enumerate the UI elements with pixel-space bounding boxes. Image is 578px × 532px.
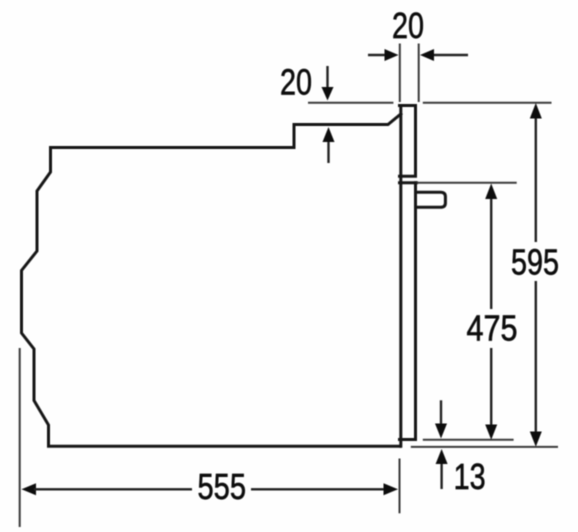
555 dimension line with arrows <box>22 483 399 495</box>
13 upper down arrow <box>435 400 447 438</box>
20-gap down arrow <box>322 66 334 101</box>
front frame lower section right edge and bottom <box>400 183 416 440</box>
door handle <box>416 192 446 207</box>
555 right extension line <box>399 459 401 514</box>
svg-text:20: 20 <box>392 5 424 46</box>
frame depth extension lines <box>400 44 419 103</box>
595 dimension line with arrows <box>530 103 542 447</box>
475 top extension line <box>417 182 517 184</box>
front frame lower section top edge <box>400 181 417 184</box>
svg-text:20: 20 <box>280 62 312 103</box>
top extension line (level of frame top) <box>308 102 552 104</box>
svg-text:555: 555 <box>198 466 247 507</box>
20-gap up arrow <box>323 127 335 163</box>
13 lower up arrow <box>436 449 448 489</box>
frame depth left-pointing arrow <box>420 49 468 61</box>
front frame top section <box>400 106 416 177</box>
front frame left edge <box>399 106 402 447</box>
oven body outline <box>22 114 401 446</box>
svg-text:595: 595 <box>511 242 559 283</box>
svg-text:13: 13 <box>454 456 486 497</box>
475 dimension line with arrows <box>485 184 497 440</box>
475 bottom extension line <box>423 439 514 441</box>
frame depth right-pointing arrow <box>368 49 399 61</box>
595 bottom extension line <box>411 446 558 448</box>
svg-text:475: 475 <box>467 308 518 349</box>
555 left extension line <box>19 348 21 527</box>
